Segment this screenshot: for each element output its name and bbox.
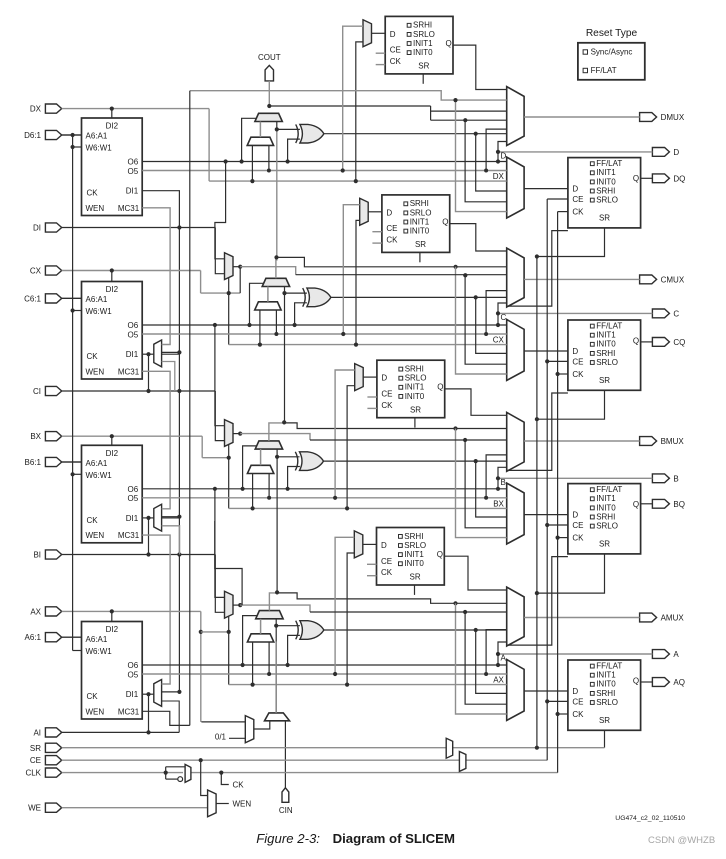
svg-text:O5: O5 bbox=[128, 494, 139, 503]
wire A6:A1 D bbox=[62, 134, 82, 136]
wire MUXCY out B bbox=[269, 423, 284, 441]
output connector BQ bbox=[652, 499, 669, 508]
wire MC31 B bbox=[142, 535, 170, 684]
wire bypass to B5FF mux bbox=[347, 386, 355, 509]
svg-text:CLK: CLK bbox=[25, 769, 41, 778]
wire MUXCY left input A bbox=[260, 619, 262, 634]
svg-text:INIT0: INIT0 bbox=[404, 559, 424, 568]
svg-text:Reset Type: Reset Type bbox=[586, 28, 638, 39]
svg-text:DI1: DI1 bbox=[126, 514, 139, 523]
wire DI select mux inputs A bbox=[252, 642, 254, 685]
svg-text:INIT1: INIT1 bbox=[404, 550, 424, 559]
svg-text:CE: CE bbox=[30, 756, 41, 765]
wire O6 to XOR D bbox=[288, 139, 300, 161]
svg-text:BX: BX bbox=[493, 499, 504, 508]
wire carry chain into A bbox=[275, 619, 277, 713]
svg-text:UG474_c2_02_110510: UG474_c2_02_110510 bbox=[615, 815, 685, 822]
wire CX to DI2 pin bbox=[111, 271, 113, 282]
node AX to LUT bbox=[110, 609, 114, 613]
wire XOR tap to AX mux bbox=[476, 630, 507, 693]
node O6 A taps bbox=[241, 663, 245, 667]
node carry D out bbox=[267, 104, 271, 108]
svg-text:MC31: MC31 bbox=[118, 707, 140, 716]
wire CE line bbox=[62, 759, 548, 761]
svg-text:SRLO: SRLO bbox=[596, 196, 618, 205]
carry XOR gate D bbox=[296, 124, 299, 143]
svg-text:Q: Q bbox=[442, 217, 448, 226]
wire DX input bbox=[62, 108, 209, 110]
svg-text:D: D bbox=[572, 185, 578, 194]
outmux BX flip-flop input select bbox=[507, 483, 524, 544]
svg-text:MC31: MC31 bbox=[118, 531, 140, 540]
wire O6 D bbox=[142, 161, 507, 163]
wire CX descent bbox=[200, 271, 202, 294]
wire C6:1 input bbox=[62, 297, 82, 299]
svg-text:BQ: BQ bbox=[673, 500, 685, 509]
svg-text:AI: AI bbox=[33, 728, 41, 737]
wire MUXCY out A bbox=[269, 593, 277, 611]
svg-text:CMUX: CMUX bbox=[661, 275, 685, 284]
svg-text:INIT0: INIT0 bbox=[596, 680, 616, 689]
wire W6:W1 C bbox=[73, 310, 82, 312]
wire O6 A bbox=[142, 664, 507, 666]
input connector C6:1 bbox=[45, 294, 61, 303]
svg-text:INIT0: INIT0 bbox=[596, 340, 616, 349]
wire W6:W1 B bbox=[73, 473, 82, 475]
svg-text:CE: CE bbox=[572, 357, 583, 366]
wire BX to DI mux select bbox=[202, 457, 229, 459]
svg-text:SR: SR bbox=[599, 214, 610, 223]
input connector CE bbox=[45, 756, 61, 765]
storage element CFF bbox=[568, 320, 641, 390]
wire B output net bbox=[498, 477, 652, 479]
wire carry to XOR B bbox=[277, 456, 299, 458]
svg-text:INIT0: INIT0 bbox=[596, 177, 616, 186]
wire DI select mux inputs B bbox=[252, 474, 254, 509]
wire O5 tap to outmux A bbox=[486, 630, 507, 674]
svg-text:CX: CX bbox=[30, 267, 42, 276]
svg-text:SRHI: SRHI bbox=[596, 186, 615, 195]
wire DI1 C bbox=[142, 353, 154, 355]
wire FF SR D bbox=[537, 228, 605, 257]
svg-text:A: A bbox=[501, 654, 507, 663]
input connector BI bbox=[45, 550, 61, 559]
svg-text:FF/LAT: FF/LAT bbox=[596, 322, 622, 331]
wire carry to XOR D bbox=[277, 128, 300, 130]
wire MC31 A to D outmux feeder bbox=[190, 91, 507, 100]
wire O5 tap to outmux B bbox=[486, 455, 507, 498]
wire FF CE D bbox=[547, 198, 568, 200]
wire MC31 C bbox=[142, 371, 170, 509]
svg-text:INIT1: INIT1 bbox=[596, 331, 616, 340]
svg-text:A6:1: A6:1 bbox=[25, 633, 42, 642]
wire CLK line bbox=[62, 772, 183, 774]
node CX to LUT bbox=[110, 268, 114, 272]
wire FF D input D bbox=[524, 188, 568, 190]
svg-text:DI2: DI2 bbox=[106, 625, 119, 634]
wire O6 to DI mux C bbox=[215, 162, 226, 259]
svg-text:D: D bbox=[390, 30, 396, 39]
storage element (O5 flip-flop) D5FF bbox=[385, 16, 453, 74]
svg-text:A: A bbox=[673, 650, 679, 659]
wire BI input bbox=[62, 554, 216, 556]
svg-text:A6:A1: A6:A1 bbox=[86, 459, 108, 468]
wire B6:1 input bbox=[62, 461, 82, 463]
outmux DMUX select bbox=[507, 87, 524, 146]
svg-text:INIT1: INIT1 bbox=[596, 494, 616, 503]
wire O5 to D5FF mux bbox=[343, 26, 363, 170]
input connector DI bbox=[45, 223, 61, 232]
wire feeder verticals A bbox=[456, 603, 507, 714]
wire AX to DI2 pin bbox=[111, 611, 113, 621]
node XOR out tap C bbox=[474, 295, 478, 299]
wire BMUX out bbox=[524, 440, 640, 442]
storage element (O5 flip-flop) B5FF bbox=[377, 360, 445, 418]
wire O5 tap to outmux C bbox=[486, 291, 507, 334]
wire DI1 mux middle input C bbox=[162, 351, 180, 353]
wire DI mux out tap C bbox=[239, 267, 241, 293]
LUT A (SLICEM function generator) bbox=[82, 622, 143, 720]
wire BX input bbox=[62, 435, 203, 437]
wire CE to WEN mux bbox=[201, 760, 208, 795]
wire DI1 A bbox=[142, 693, 154, 695]
storage element (O5 flip-flop) A5FF bbox=[377, 528, 445, 586]
wire O6 to MUXCY select B bbox=[243, 446, 257, 489]
wire AX bypass horizontal bbox=[229, 684, 507, 686]
wire DI1 D bbox=[142, 191, 179, 353]
svg-text:CI: CI bbox=[33, 387, 41, 396]
svg-text:AMUX: AMUX bbox=[661, 614, 685, 623]
input connector D6:1 bbox=[45, 130, 61, 139]
wire SR bus vertical bbox=[536, 257, 538, 748]
wire bypass to D5FF mux bbox=[356, 42, 363, 181]
wire CLK feedback bbox=[166, 766, 185, 768]
storage element BFF bbox=[568, 484, 641, 554]
wire FF CK A bbox=[558, 713, 568, 715]
svg-text:O5: O5 bbox=[128, 167, 139, 176]
svg-text:CK: CK bbox=[386, 236, 398, 245]
svg-text:Figure 2-3:: Figure 2-3: bbox=[256, 831, 320, 846]
wire MUXCY left input B bbox=[260, 449, 262, 465]
wire FF Q out C bbox=[641, 341, 653, 343]
wire CYINIT select out bbox=[254, 721, 270, 729]
carry DI select mux C bbox=[255, 302, 281, 310]
wire C5FF CE CK stubs bbox=[372, 231, 382, 233]
wire A5FF CE CK stubs bbox=[367, 563, 377, 565]
wire FF D input A bbox=[524, 690, 568, 692]
wire net to outmux bottom A bbox=[498, 642, 507, 654]
svg-text:SR: SR bbox=[415, 240, 426, 249]
wire XOR out D bbox=[324, 133, 507, 135]
storage element AFF bbox=[568, 660, 641, 730]
input connector A6:1 bbox=[45, 633, 61, 642]
wire net to outmux bottom B bbox=[498, 467, 507, 478]
svg-text:B: B bbox=[501, 478, 506, 487]
svg-text:CQ: CQ bbox=[673, 338, 685, 347]
output connector CMUX bbox=[640, 275, 657, 284]
svg-text:CE: CE bbox=[390, 46, 401, 55]
svg-text:SRLO: SRLO bbox=[596, 522, 618, 531]
node XOR out tap D bbox=[474, 132, 478, 136]
svg-text:WEN: WEN bbox=[86, 707, 105, 716]
wire A6:A1 C bbox=[62, 297, 82, 299]
wire O5 to C5FF mux bbox=[343, 205, 359, 334]
wire A5FF input mux out bbox=[363, 543, 377, 545]
label CK net bbox=[221, 773, 229, 785]
wire O6 to MUXCY select C bbox=[250, 283, 264, 325]
wire MUXCY out D bbox=[269, 105, 430, 107]
output connector CQ bbox=[652, 338, 669, 347]
node carry XOR tap B bbox=[275, 455, 279, 459]
svg-text:CK: CK bbox=[381, 568, 393, 577]
mux DI1 select LUT B bbox=[154, 504, 162, 531]
wire O5 tap to outmux D bbox=[486, 129, 507, 170]
svg-text:A6:A1: A6:A1 bbox=[86, 635, 108, 644]
wire net tap to O6 A bbox=[497, 654, 499, 665]
svg-text:Diagram of SLICEM: Diagram of SLICEM bbox=[333, 831, 455, 846]
node CX select junction bbox=[227, 291, 231, 295]
svg-text:SRLO: SRLO bbox=[404, 541, 426, 550]
LUT C (SLICEM function generator) bbox=[82, 282, 143, 380]
wire C5FF Q to outmux bbox=[450, 224, 507, 251]
wire DI mux out B bbox=[233, 433, 240, 435]
svg-text:AQ: AQ bbox=[673, 678, 685, 687]
wire feeder verticals B bbox=[456, 429, 507, 538]
svg-text:A6:A1: A6:A1 bbox=[86, 295, 108, 304]
wire D6:1 input bbox=[62, 134, 82, 136]
wire MC31 A bbox=[142, 711, 190, 725]
wire D5FF input mux out bbox=[372, 32, 386, 34]
input connector CX bbox=[45, 266, 61, 275]
clock inverter bubble bbox=[178, 777, 183, 782]
svg-text:D: D bbox=[673, 148, 679, 157]
wire O5 to B5FF mux bbox=[335, 370, 355, 498]
svg-text:D: D bbox=[381, 374, 387, 383]
wire feeder verticals C bbox=[456, 267, 507, 374]
input connector CLK bbox=[45, 768, 61, 777]
svg-text:DX: DX bbox=[493, 172, 505, 181]
svg-text:CK: CK bbox=[233, 781, 245, 790]
wire CX to DI mux select bbox=[201, 292, 241, 294]
wire SR line bbox=[62, 747, 605, 749]
wire O6 to XOR B bbox=[288, 467, 300, 489]
wire FF CE C bbox=[547, 360, 568, 362]
connector COUT bbox=[265, 65, 273, 81]
svg-text:D: D bbox=[572, 511, 578, 520]
node BX to LUT bbox=[110, 434, 114, 438]
wire MUXCY left input C bbox=[267, 287, 269, 302]
wire AX to DI mux select bbox=[201, 631, 229, 633]
svg-text:D: D bbox=[572, 347, 578, 356]
input connector B6:1 bbox=[45, 457, 61, 466]
wire DI select mux inputs D bbox=[251, 145, 253, 181]
svg-text:CK: CK bbox=[390, 57, 402, 66]
wire O6 to MUXCY select A bbox=[243, 616, 257, 665]
svg-text:INIT1: INIT1 bbox=[410, 217, 430, 226]
wire XOR tap to DX mux bbox=[476, 134, 507, 191]
wire CQ feedback bbox=[507, 393, 568, 470]
svg-text:SRHI: SRHI bbox=[596, 689, 615, 698]
wire O5 A bbox=[142, 673, 507, 675]
svg-text:DI2: DI2 bbox=[106, 449, 119, 458]
wire C5FF input mux out bbox=[368, 211, 382, 213]
svg-text:INIT0: INIT0 bbox=[410, 227, 430, 236]
svg-text:D: D bbox=[386, 208, 392, 217]
svg-text:DQ: DQ bbox=[673, 174, 685, 183]
svg-text:CSDN @WHZB: CSDN @WHZB bbox=[648, 835, 715, 846]
wire I to DI mux B bbox=[215, 391, 224, 441]
wire O6 C bbox=[142, 324, 507, 326]
wire A5FF SR stub bbox=[414, 585, 416, 595]
carry DI select mux A bbox=[247, 634, 273, 642]
wire net tap to O6 D bbox=[497, 152, 499, 162]
svg-text:SRLO: SRLO bbox=[596, 698, 618, 707]
svg-text:B: B bbox=[673, 474, 678, 483]
carry mux MUXCY A bbox=[256, 611, 283, 619]
wire FF SR B bbox=[537, 554, 605, 593]
wire WE line bbox=[62, 807, 208, 809]
wire CIN vertical bbox=[284, 721, 286, 788]
wire carry chain into C bbox=[284, 287, 286, 424]
svg-text:Q: Q bbox=[633, 337, 639, 346]
wire DI1 mux bottom input B bbox=[162, 526, 180, 555]
wire FF D input B bbox=[524, 514, 568, 516]
svg-text:0/1: 0/1 bbox=[215, 733, 227, 742]
wire C5FF SR stub bbox=[419, 252, 421, 262]
wire FF SR A bbox=[604, 730, 606, 747]
wire A6:1 input bbox=[62, 636, 82, 638]
input connector BX bbox=[45, 432, 61, 441]
wire D output net bbox=[498, 151, 652, 153]
svg-text:SR: SR bbox=[30, 744, 41, 753]
input connector WE bbox=[45, 803, 61, 812]
svg-text:WE: WE bbox=[28, 804, 41, 813]
svg-text:O6: O6 bbox=[128, 661, 139, 670]
svg-text:CE: CE bbox=[381, 557, 392, 566]
wire XOR tap to CX mux bbox=[476, 297, 507, 353]
wire CI input bbox=[62, 390, 216, 392]
node AX tee to select stub bbox=[199, 630, 203, 634]
wire feeder verticals D bbox=[456, 100, 507, 212]
storage element (O5 flip-flop) C5FF bbox=[382, 195, 450, 253]
svg-text:A6:A1: A6:A1 bbox=[86, 132, 108, 141]
svg-text:D6:1: D6:1 bbox=[24, 131, 41, 140]
svg-text:CE: CE bbox=[572, 697, 583, 706]
svg-text:SRHI: SRHI bbox=[405, 365, 424, 374]
wire W6:W1 A bbox=[73, 650, 82, 652]
svg-text:O6: O6 bbox=[128, 485, 139, 494]
wire net tap to O6 B bbox=[497, 478, 499, 489]
wire B5FF Q to outmux bbox=[445, 389, 507, 415]
svg-text:AX: AX bbox=[30, 607, 41, 616]
input connector SR bbox=[45, 743, 61, 752]
carry XOR gate C bbox=[303, 288, 306, 307]
node carry XOR tap A bbox=[274, 624, 278, 628]
svg-text:W6:W1: W6:W1 bbox=[86, 647, 113, 656]
svg-text:CE: CE bbox=[572, 195, 583, 204]
node XOR out tap B bbox=[474, 459, 478, 463]
svg-text:Q: Q bbox=[633, 677, 639, 686]
wire DX to DI2 pin bbox=[111, 109, 113, 118]
outmux CMUX select bbox=[507, 248, 524, 307]
svg-text:AX: AX bbox=[493, 676, 504, 685]
carry DI select mux B bbox=[247, 465, 273, 473]
wire CK bus vertical bbox=[557, 212, 559, 773]
svg-text:DI2: DI2 bbox=[106, 122, 119, 131]
svg-text:INIT0: INIT0 bbox=[405, 392, 425, 401]
wire COUT vertical bbox=[268, 81, 270, 106]
wire DI mux select vertical B bbox=[228, 445, 230, 509]
output connector B bbox=[652, 474, 669, 483]
LUT D (SLICEM function generator) bbox=[82, 118, 143, 216]
svg-text:CK: CK bbox=[87, 692, 99, 701]
wire A5FF Q to outmux bbox=[444, 556, 506, 590]
wire FF Q out B bbox=[641, 503, 653, 505]
svg-text:D: D bbox=[572, 687, 578, 696]
LUT B (SLICEM function generator) bbox=[82, 445, 143, 543]
svg-text:SRHI: SRHI bbox=[596, 349, 615, 358]
wire DX bypass horizontal bbox=[209, 180, 507, 182]
wire AX descent bbox=[200, 611, 202, 722]
svg-text:MC31: MC31 bbox=[118, 204, 140, 213]
svg-text:SRLO: SRLO bbox=[405, 374, 427, 383]
outmux BMUX select bbox=[507, 412, 524, 471]
svg-text:WEN: WEN bbox=[86, 531, 105, 540]
svg-text:O6: O6 bbox=[128, 321, 139, 330]
wire net to outmux bottom C bbox=[498, 303, 507, 313]
wire DI input bbox=[62, 227, 216, 229]
wire A6:A1 A bbox=[62, 636, 82, 638]
wire CMUX out bbox=[524, 278, 640, 280]
output connector AMUX bbox=[640, 613, 657, 622]
svg-text:FF/LAT: FF/LAT bbox=[596, 662, 622, 671]
wire FF Q out A bbox=[641, 681, 653, 683]
wire net to outmux bottom D bbox=[498, 142, 507, 152]
svg-text:C6:1: C6:1 bbox=[24, 294, 41, 303]
wire O6 to XOR A bbox=[288, 635, 300, 665]
svg-text:SR: SR bbox=[599, 376, 610, 385]
svg-text:MC31: MC31 bbox=[118, 367, 140, 376]
wire BQ feedback bbox=[507, 557, 568, 646]
node O6 B taps bbox=[241, 487, 245, 491]
node BX select junction bbox=[227, 456, 231, 460]
wire MUXCY left input D bbox=[259, 122, 261, 138]
svg-text:CIN: CIN bbox=[279, 806, 293, 815]
wire carry to XOR C bbox=[285, 292, 307, 294]
wire B5FF SR stub bbox=[414, 418, 416, 428]
svg-text:SR: SR bbox=[410, 405, 421, 414]
wire B5FF input mux out bbox=[363, 376, 377, 378]
wire carry chain into B bbox=[276, 449, 278, 593]
wire 6:1 address bus bbox=[72, 135, 74, 651]
wire FF CK C bbox=[558, 373, 568, 375]
svg-text:CK: CK bbox=[572, 534, 584, 543]
svg-text:CE: CE bbox=[572, 521, 583, 530]
svg-text:WEN: WEN bbox=[86, 367, 105, 376]
svg-text:CK: CK bbox=[87, 352, 99, 361]
svg-text:O6: O6 bbox=[128, 158, 139, 167]
svg-text:WEN: WEN bbox=[233, 800, 252, 809]
wire DI1 mux middle input B bbox=[162, 516, 180, 518]
wire carry chain into D bbox=[276, 122, 278, 130]
svg-text:C: C bbox=[501, 313, 507, 322]
connector CIN bbox=[282, 788, 289, 803]
wire D5FF SR stub bbox=[422, 74, 424, 84]
wire bypass to A5FF mux bbox=[347, 553, 354, 685]
input connector CI bbox=[45, 386, 61, 395]
svg-text:D: D bbox=[501, 151, 507, 160]
svg-text:CK: CK bbox=[87, 189, 99, 198]
